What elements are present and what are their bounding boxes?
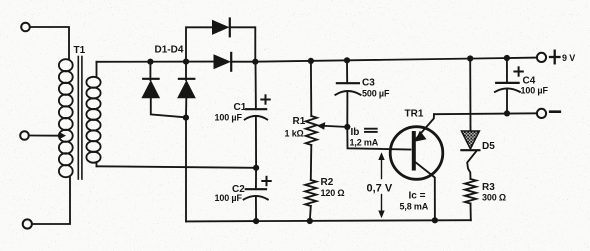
svg-text:500 µF: 500 µF — [362, 89, 390, 99]
TR1 emitter arrow (points to base) — [415, 131, 427, 142]
wire D2 cathode to + rail node — [231, 61, 255, 63]
svg-text:100 µF: 100 µF — [215, 193, 243, 203]
diode D1 — [212, 19, 230, 37]
plus sign output — [550, 51, 560, 64]
svg-text:R2: R2 — [321, 177, 334, 188]
transformer T1 secondary winding — [86, 77, 100, 163]
zener diode D5 — [461, 59, 479, 180]
node D3/D4 anodes — [183, 115, 189, 121]
capacitor C4 — [495, 58, 520, 113]
node R1 top — [308, 58, 314, 64]
terminal J2 (AC input tap) — [20, 131, 29, 140]
0,7V measurement arrow — [378, 152, 384, 218]
svg-text:5,8 mA: 5,8 mA — [400, 202, 429, 212]
wire D3/D4 junction down to 0V rail — [185, 118, 187, 222]
node C1-C2 midpoint — [253, 165, 259, 171]
svg-text:1 kΩ: 1 kΩ — [285, 129, 304, 139]
wire secondary bottom to C1/C2 midpoint — [97, 166, 257, 168]
wire J2 to primary tap — [29, 135, 60, 137]
terminal minus output — [537, 109, 546, 118]
svg-text:100 µF: 100 µF — [521, 86, 549, 96]
node R2 bottom — [307, 218, 313, 224]
wire J3 to primary bottom — [32, 177, 70, 224]
transistor TR1 body — [390, 127, 443, 180]
tap arrow into primary — [59, 132, 66, 139]
node D5 top — [467, 55, 473, 61]
svg-text:100 µF: 100 µF — [215, 113, 243, 123]
node bridge output — [252, 59, 258, 65]
svg-text:Ic =: Ic = — [409, 191, 426, 202]
node AC1-D4 — [183, 59, 189, 65]
wire J1 to primary top — [30, 27, 69, 60]
node C4 bottom — [504, 110, 510, 116]
svg-text:D1-D4: D1-D4 — [155, 45, 184, 56]
terminal J3 (AC input bottom) — [23, 219, 32, 228]
svg-text:300 Ω: 300 Ω — [482, 193, 506, 203]
node base/wiper/C3 — [344, 124, 350, 130]
terminal J1 (AC input top) — [21, 23, 30, 32]
node C4 top — [504, 55, 510, 61]
wire D1 cathode down to + rail — [230, 27, 256, 61]
svg-text:9 V: 9 V — [562, 53, 575, 63]
node C2 bottom — [253, 218, 259, 224]
TR1 emitter (to minus rail) — [415, 114, 435, 140]
wire R1 to R2 — [310, 145, 313, 180]
capacitor C3 — [335, 60, 360, 127]
wire R3 to 0V rail — [470, 204, 472, 221]
diode D4 (lower right, upward) — [177, 62, 196, 118]
C4 plus sign — [514, 67, 522, 75]
resistor R3 — [465, 179, 476, 204]
TR1 collector — [415, 162, 435, 221]
svg-text:TR1: TR1 — [405, 109, 424, 120]
terminal +9V output — [537, 53, 546, 62]
capacitor C1 — [245, 109, 267, 168]
0V rail — [186, 220, 471, 221]
minus sign output — [550, 110, 560, 113]
wire + rail to C1 — [255, 62, 257, 109]
node C3 top — [344, 57, 350, 63]
svg-text:T1: T1 — [74, 45, 86, 56]
wire rail to R1 — [310, 61, 312, 116]
wire secondary bottom stub — [96, 162, 98, 166]
svg-text:120 Ω: 120 Ω — [321, 188, 345, 198]
svg-text:D5: D5 — [482, 141, 495, 152]
svg-text:C1: C1 — [234, 102, 247, 113]
svg-text:R1: R1 — [293, 116, 306, 127]
C2 plus sign — [262, 177, 270, 185]
wire R2 to 0V rail — [310, 206, 311, 221]
resistor R1 (adjustable) — [306, 116, 317, 145]
TR1 base bar — [412, 133, 416, 169]
node collector-0V rail — [432, 217, 438, 223]
wire AC1 line (secondary top to D2 anode) — [97, 61, 214, 63]
transformer T1 core — [78, 57, 82, 180]
transformer T1 primary winding — [59, 59, 73, 177]
svg-text:C3: C3 — [362, 78, 375, 89]
svg-text:1,2 mA: 1,2 mA — [350, 138, 379, 148]
svg-text:R3: R3 — [482, 182, 495, 193]
wire node to base of TR1 — [347, 127, 410, 150]
wire top branch to diode D1 — [186, 27, 212, 61]
svg-text:Ib: Ib — [351, 127, 360, 138]
capacitor C2 — [244, 168, 268, 221]
diode D2 — [214, 53, 232, 71]
C1 plus sign — [261, 95, 269, 103]
diode D3 (lower left, upward) — [141, 62, 185, 118]
minus rail (emitter to minus terminal) — [434, 112, 537, 115]
svg-text:0,7 V: 0,7 V — [367, 183, 393, 195]
+ rail (bridge output to +9V terminal) — [255, 58, 537, 62]
node AC1-D3 — [147, 59, 153, 65]
wire secondary top to AC node line — [96, 62, 98, 77]
Ib equals sign — [365, 129, 377, 132]
R1 wiper arrow — [317, 122, 348, 130]
resistor R2 — [305, 180, 316, 206]
